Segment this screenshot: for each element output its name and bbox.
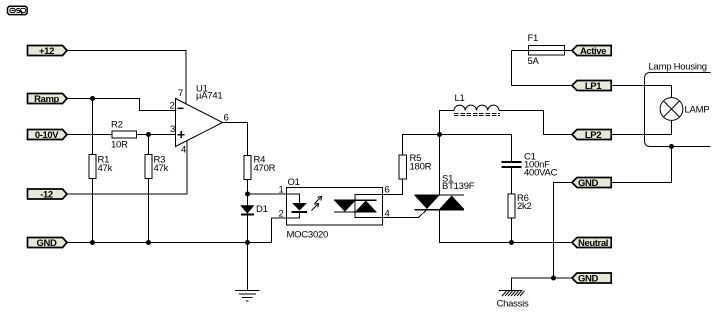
svg-text:R2: R2 <box>111 120 123 131</box>
svg-text:0-10V: 0-10V <box>35 130 59 141</box>
wire opto pin4 to gate <box>383 210 428 218</box>
wire Active to fuse <box>565 50 572 52</box>
resistor R4 <box>244 155 276 180</box>
svg-text:Lamp Housing: Lamp Housing <box>649 62 707 73</box>
inductor L1 <box>454 93 500 116</box>
wire Ramp net <box>67 99 176 111</box>
capacitor C1 <box>502 152 558 179</box>
svg-text:1: 1 <box>278 185 283 196</box>
svg-text:6: 6 <box>224 113 229 124</box>
connector tag Ramp <box>28 94 68 106</box>
svg-text:47k: 47k <box>98 163 113 174</box>
diode D1 <box>241 204 268 216</box>
junction Ramp/R1 <box>90 96 95 101</box>
svg-text:3: 3 <box>170 124 175 135</box>
svg-text:2k2: 2k2 <box>517 201 532 212</box>
junction R4/D1/pin1 <box>245 192 250 197</box>
wire R3 bottom <box>148 179 150 243</box>
wire R5 top to snubber rail <box>403 135 512 162</box>
junction R1/GND <box>90 240 95 245</box>
svg-text:BT139F: BT139F <box>442 181 475 192</box>
resistor R6 <box>508 193 532 218</box>
svg-text:O1: O1 <box>288 177 300 188</box>
svg-text:µA741: µA741 <box>196 91 222 102</box>
wire R4 to D1 junction <box>247 180 249 206</box>
wire GND to chassis net <box>554 183 573 279</box>
svg-text:-12: -12 <box>40 190 53 201</box>
wire L1 left <box>440 111 455 135</box>
connector tag +12 <box>28 46 68 58</box>
wire C1 to R6 <box>511 168 513 194</box>
connector tag 0-10V <box>28 130 68 142</box>
junction R3/GND <box>146 240 151 245</box>
connector tag LP2 <box>572 130 611 142</box>
wire R1 top <box>92 99 94 155</box>
svg-text:Ramp: Ramp <box>34 94 59 105</box>
wire opto pin6 to R5 <box>383 179 403 195</box>
opto light arrows <box>312 196 322 210</box>
wire +12 net <box>67 51 186 105</box>
svg-text:180R: 180R <box>410 162 432 173</box>
wire LP1 to lamp <box>612 86 672 99</box>
svg-text:L1: L1 <box>455 93 465 104</box>
op-amp U1 <box>170 84 229 156</box>
connector tag LP1 <box>572 81 611 93</box>
svg-text:Active: Active <box>580 46 606 57</box>
junction L1/triac/C1 <box>437 132 442 137</box>
wire R1 bottom <box>92 179 94 243</box>
connector tag GND left <box>28 238 68 250</box>
wire lamp to LP2 <box>612 121 672 135</box>
wire fuse to LP1 <box>512 51 573 86</box>
svg-text:D1: D1 <box>256 204 268 215</box>
wire 0-10V net <box>67 134 112 136</box>
resistor R1 <box>89 155 113 179</box>
wire -12 net <box>67 141 187 195</box>
svg-text:470R: 470R <box>254 163 276 174</box>
junction D1/GND <box>245 240 250 245</box>
junction housing/GND <box>669 144 674 149</box>
svg-text:6: 6 <box>385 185 390 196</box>
optocoupler O1 box <box>278 177 389 241</box>
wire R2 to pin3 <box>137 134 176 136</box>
svg-text:GND: GND <box>578 178 598 189</box>
svg-text:MOC3020: MOC3020 <box>287 230 329 241</box>
connector tag -12 <box>28 189 68 201</box>
ground symbol below D1 <box>235 291 260 302</box>
svg-text:5A: 5A <box>528 56 540 67</box>
svg-text:LP1: LP1 <box>585 81 602 92</box>
svg-text:GND: GND <box>37 238 57 249</box>
wire chassis stub <box>512 278 554 290</box>
esp logo <box>8 6 28 15</box>
svg-text:4: 4 <box>181 145 186 156</box>
svg-text:400VAC: 400VAC <box>524 168 558 179</box>
wire D1 to ground <box>247 215 249 291</box>
svg-text:2: 2 <box>170 101 175 112</box>
svg-text:2: 2 <box>278 209 283 220</box>
triac S1 <box>415 174 475 211</box>
svg-text:10R: 10R <box>111 140 128 151</box>
wire R3 top <box>148 135 150 155</box>
svg-text:4: 4 <box>385 209 390 220</box>
resistor R3 <box>145 155 169 179</box>
svg-text:Neutral: Neutral <box>578 238 608 249</box>
wire opamp output to R4 <box>223 123 248 156</box>
wire L1 right to LP2 <box>499 111 572 135</box>
opto internal LED <box>287 194 308 218</box>
connector tag Active <box>572 46 611 58</box>
junction R6/Neutral <box>509 240 514 245</box>
wire triac MT1 / Neutral rail <box>440 210 573 243</box>
wire GND to housing <box>612 147 672 183</box>
connector tag Neutral <box>572 238 611 250</box>
svg-text:LAMP: LAMP <box>685 105 710 116</box>
svg-text:GND: GND <box>578 274 598 285</box>
wire R6 bottom <box>511 218 513 243</box>
svg-text:LP2: LP2 <box>585 130 601 141</box>
opto internal triac <box>334 195 383 218</box>
junction R2/R3/pin3 <box>146 132 151 137</box>
wire opto pin1 <box>248 193 287 195</box>
connector tag GND right upper <box>572 178 611 190</box>
chassis ground symbol <box>497 291 530 310</box>
junction chassis/GND <box>551 276 556 281</box>
svg-text:F1: F1 <box>528 33 539 44</box>
fuse F1 <box>528 33 565 67</box>
svg-text:7: 7 <box>178 88 183 99</box>
wire GND rail left <box>67 218 287 243</box>
svg-text:Chassis: Chassis <box>497 299 530 310</box>
connector tag GND right lower <box>572 273 611 285</box>
wire triac MT2 <box>439 135 441 195</box>
lamp housing boundary <box>645 73 711 147</box>
lamp <box>660 98 709 121</box>
svg-text:+12: +12 <box>39 46 54 57</box>
resistor R2 <box>111 120 137 151</box>
resistor R5 <box>399 153 432 179</box>
svg-text:47k: 47k <box>154 163 169 174</box>
